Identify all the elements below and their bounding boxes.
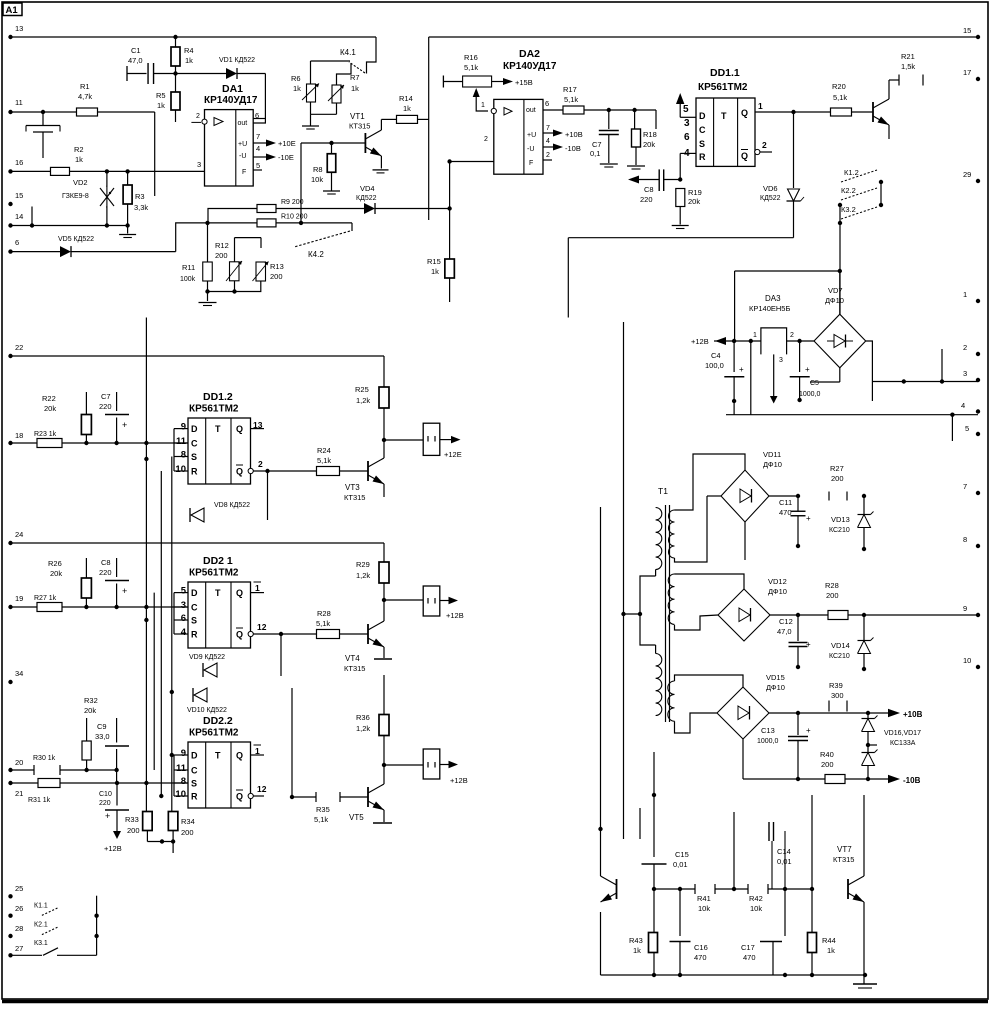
svg-text:КТ315: КТ315 (344, 664, 365, 673)
svg-text:DA3: DA3 (765, 294, 781, 303)
svg-text:15: 15 (963, 26, 971, 35)
svg-text:1,2k: 1,2k (356, 724, 370, 733)
svg-text:VD12: VD12 (768, 577, 787, 586)
svg-text:470: 470 (779, 508, 792, 517)
svg-text:6: 6 (181, 613, 186, 624)
svg-text:Q: Q (236, 630, 243, 640)
svg-text:19: 19 (15, 594, 23, 603)
svg-text:VT3: VT3 (345, 483, 360, 492)
svg-text:C13: C13 (761, 726, 775, 735)
svg-text:C1: C1 (131, 46, 141, 55)
svg-text:R: R (699, 152, 706, 162)
svg-text:R16: R16 (464, 53, 478, 62)
svg-text:11: 11 (176, 763, 187, 774)
svg-text:220: 220 (99, 800, 111, 807)
svg-text:S: S (191, 452, 197, 462)
svg-text:220: 220 (99, 568, 112, 577)
svg-text:16: 16 (15, 158, 23, 167)
svg-text:+: + (805, 365, 810, 374)
svg-text:К1.2: К1.2 (844, 168, 859, 177)
svg-text:КТ315: КТ315 (833, 855, 854, 864)
svg-text:T: T (215, 424, 221, 434)
svg-text:ДФ10: ДФ10 (763, 460, 782, 469)
svg-text:2: 2 (963, 343, 967, 352)
svg-text:Q: Q (236, 792, 243, 802)
svg-text:200: 200 (270, 272, 283, 281)
svg-text:220: 220 (640, 195, 653, 204)
svg-text:Q: Q (236, 424, 243, 434)
svg-text:ГЗКЕ9-8: ГЗКЕ9-8 (62, 193, 89, 200)
svg-text:R4: R4 (184, 46, 194, 55)
svg-text:1: 1 (963, 290, 967, 299)
svg-text:К2.1: К2.1 (34, 922, 48, 929)
svg-text:Q: Q (236, 751, 243, 761)
svg-text:C9: C9 (97, 722, 107, 731)
svg-text:2: 2 (258, 459, 263, 469)
svg-text:К3.2: К3.2 (841, 205, 856, 214)
svg-text:VT5: VT5 (349, 813, 364, 822)
svg-text:5,1k: 5,1k (564, 95, 578, 104)
svg-text:+10В: +10В (903, 710, 923, 719)
svg-text:КР561ТМ2: КР561ТМ2 (189, 728, 239, 739)
svg-text:1,5k: 1,5k (901, 62, 915, 71)
svg-text:out: out (526, 107, 536, 114)
svg-text:25: 25 (15, 884, 23, 893)
svg-text:29: 29 (963, 170, 971, 179)
svg-text:R26: R26 (48, 559, 62, 568)
svg-text:+10В: +10В (565, 130, 583, 139)
svg-text:9: 9 (181, 422, 186, 433)
svg-text:КД522: КД522 (356, 195, 377, 202)
svg-text:R35: R35 (316, 805, 330, 814)
svg-text:-10В: -10В (903, 776, 921, 785)
svg-text:R30 1k: R30 1k (33, 755, 56, 762)
svg-text:R12: R12 (215, 241, 229, 250)
svg-text:C8: C8 (101, 558, 111, 567)
svg-text:5: 5 (256, 161, 260, 170)
svg-text:1k: 1k (293, 84, 301, 93)
svg-text:3: 3 (963, 369, 967, 378)
svg-text:10k: 10k (750, 904, 762, 913)
svg-text:C7: C7 (592, 140, 602, 149)
svg-text:C8: C8 (644, 185, 654, 194)
svg-text:VT1: VT1 (350, 112, 365, 121)
svg-text:R17: R17 (563, 85, 577, 94)
svg-text:+U: +U (527, 132, 536, 139)
svg-text:7: 7 (963, 482, 967, 491)
svg-text:R39: R39 (829, 681, 843, 690)
svg-text:1: 1 (758, 101, 763, 111)
svg-text:DD1.2: DD1.2 (203, 391, 233, 403)
svg-text:КС133А: КС133А (890, 740, 916, 747)
svg-text:5: 5 (181, 586, 187, 597)
svg-text:+: + (806, 726, 811, 735)
svg-text:1k: 1k (633, 946, 641, 955)
svg-text:100,0: 100,0 (705, 361, 724, 370)
svg-text:R36: R36 (356, 713, 370, 722)
svg-text:1k: 1k (157, 101, 165, 110)
svg-text:R25: R25 (355, 385, 369, 394)
svg-text:КР140УД17: КР140УД17 (503, 61, 557, 72)
svg-text:КД522: КД522 (760, 195, 781, 202)
svg-text:R44: R44 (822, 936, 836, 945)
svg-text:5,1k: 5,1k (314, 815, 328, 824)
svg-text:DA1: DA1 (222, 83, 243, 95)
svg-text:1000,0: 1000,0 (757, 738, 779, 745)
svg-text:R10 200: R10 200 (281, 214, 308, 221)
svg-text:F: F (242, 169, 246, 176)
svg-text:12: 12 (257, 784, 267, 794)
svg-text:Q: Q (236, 588, 243, 598)
svg-text:К2.2: К2.2 (841, 186, 856, 195)
svg-text:21: 21 (15, 789, 23, 798)
svg-text:R: R (191, 792, 198, 802)
svg-text:A1: A1 (6, 5, 19, 16)
svg-text:R18: R18 (643, 130, 657, 139)
svg-text:DD1.1: DD1.1 (710, 67, 740, 79)
svg-text:200: 200 (826, 591, 839, 600)
svg-text:DD2 1: DD2 1 (203, 555, 233, 567)
svg-text:3: 3 (779, 357, 783, 364)
svg-text:DD2.2: DD2.2 (203, 715, 233, 727)
svg-text:VD6: VD6 (763, 184, 778, 193)
svg-text:Т1: Т1 (658, 486, 668, 496)
svg-text:7: 7 (256, 132, 260, 141)
svg-text:20k: 20k (643, 140, 655, 149)
svg-text:20k: 20k (84, 706, 96, 715)
svg-text:VD8 КД522: VD8 КД522 (214, 502, 250, 509)
svg-text:1,2k: 1,2k (356, 396, 370, 405)
svg-text:R41: R41 (697, 894, 711, 903)
svg-text:+12В: +12В (446, 611, 464, 620)
svg-text:9: 9 (181, 748, 186, 759)
svg-text:0,01: 0,01 (673, 860, 688, 869)
svg-text:11: 11 (15, 98, 23, 107)
svg-text:3: 3 (197, 160, 201, 169)
svg-text:R27: R27 (830, 464, 844, 473)
svg-text:R40: R40 (820, 750, 834, 759)
svg-text:8: 8 (963, 535, 967, 544)
svg-text:VD9 КД522: VD9 КД522 (189, 654, 225, 661)
svg-text:DA2: DA2 (519, 48, 540, 60)
svg-text:1k: 1k (431, 267, 439, 276)
svg-text:КР140ЕН5Б: КР140ЕН5Б (749, 304, 790, 313)
svg-text:C17: C17 (741, 943, 755, 952)
svg-text:R20: R20 (832, 82, 846, 91)
svg-text:1k: 1k (185, 56, 193, 65)
svg-text:T: T (721, 111, 727, 121)
svg-text:D: D (191, 588, 198, 598)
svg-text:D: D (191, 751, 198, 761)
svg-text:15: 15 (15, 191, 23, 200)
svg-text:100k: 100k (180, 276, 196, 283)
svg-text:R33: R33 (125, 815, 139, 824)
svg-text:22: 22 (15, 343, 23, 352)
svg-text:R1: R1 (80, 82, 90, 91)
svg-text:VD16,VD17: VD16,VD17 (884, 730, 921, 737)
svg-text:3: 3 (181, 600, 186, 611)
svg-text:R9 200: R9 200 (281, 199, 304, 206)
svg-text:10: 10 (175, 464, 186, 475)
svg-text:R43: R43 (629, 936, 643, 945)
svg-text:18: 18 (15, 431, 23, 440)
svg-text:R23 1k: R23 1k (34, 431, 57, 438)
svg-text:VD15: VD15 (766, 673, 785, 682)
svg-text:C4: C4 (711, 351, 721, 360)
svg-text:4: 4 (546, 138, 550, 145)
svg-text:7: 7 (546, 125, 550, 132)
svg-text:R24: R24 (317, 446, 331, 455)
svg-text:10k: 10k (311, 175, 323, 184)
svg-text:10: 10 (175, 789, 186, 800)
svg-text:+12Е: +12Е (444, 450, 462, 459)
svg-text:ДФ10: ДФ10 (825, 296, 844, 305)
svg-text:1k: 1k (827, 946, 835, 955)
svg-text:8: 8 (181, 450, 186, 461)
svg-text:47,0: 47,0 (128, 56, 143, 65)
svg-text:КР561ТМ2: КР561ТМ2 (698, 82, 748, 93)
svg-text:5,1k: 5,1k (833, 93, 847, 102)
svg-text:10: 10 (963, 656, 971, 665)
svg-text:24: 24 (15, 530, 23, 539)
svg-text:2: 2 (546, 152, 550, 159)
svg-text:+: + (122, 586, 127, 596)
svg-text:3: 3 (684, 118, 690, 129)
svg-text:6: 6 (684, 132, 690, 143)
svg-text:VD14: VD14 (831, 641, 850, 650)
svg-text:КР140УД17: КР140УД17 (204, 95, 258, 106)
svg-text:R31 1k: R31 1k (28, 797, 51, 804)
svg-text:F: F (529, 160, 533, 167)
svg-text:C: C (699, 125, 706, 135)
svg-text:+U: +U (238, 141, 247, 148)
svg-text:C15: C15 (675, 850, 689, 859)
svg-text:R22: R22 (42, 394, 56, 403)
svg-text:2: 2 (196, 113, 200, 120)
svg-text:R34: R34 (181, 817, 195, 826)
svg-text:D: D (191, 424, 198, 434)
svg-text:11: 11 (176, 436, 187, 447)
svg-text:VT4: VT4 (345, 654, 360, 663)
svg-text:14: 14 (15, 212, 23, 221)
svg-text:200: 200 (821, 760, 834, 769)
svg-text:200: 200 (831, 474, 844, 483)
svg-text:4: 4 (256, 144, 260, 153)
svg-text:out: out (238, 120, 248, 127)
svg-text:220: 220 (99, 402, 112, 411)
svg-text:КС210: КС210 (829, 653, 850, 660)
svg-text:20k: 20k (50, 569, 62, 578)
svg-text:R21: R21 (901, 52, 915, 61)
svg-text:C10: C10 (99, 791, 112, 798)
svg-text:-U: -U (527, 146, 534, 153)
svg-text:+12В: +12В (691, 337, 709, 346)
svg-text:S: S (699, 139, 705, 149)
svg-text:КТ315: КТ315 (344, 493, 365, 502)
svg-text:5,1k: 5,1k (464, 63, 478, 72)
svg-text:T: T (215, 588, 221, 598)
svg-text:R42: R42 (749, 894, 763, 903)
svg-text:27: 27 (15, 944, 23, 953)
svg-text:+: + (105, 811, 110, 821)
svg-text:VT7: VT7 (837, 845, 852, 854)
svg-text:R15: R15 (427, 257, 441, 266)
svg-text:R32: R32 (84, 696, 98, 705)
svg-text:C: C (191, 603, 198, 613)
svg-text:20: 20 (15, 758, 23, 767)
svg-text:К3.1: К3.1 (34, 940, 48, 947)
svg-text:R29: R29 (356, 560, 370, 569)
svg-text:Q: Q (741, 108, 748, 118)
svg-text:R5: R5 (156, 91, 166, 100)
svg-text:200: 200 (215, 251, 228, 260)
svg-text:C16: C16 (694, 943, 708, 952)
svg-text:+12В: +12В (450, 776, 468, 785)
svg-text:200: 200 (127, 826, 140, 835)
svg-text:5,1k: 5,1k (316, 619, 330, 628)
svg-text:VD4: VD4 (360, 184, 375, 193)
svg-text:1k: 1k (75, 155, 83, 164)
svg-text:R2: R2 (74, 145, 84, 154)
svg-text:1,2k: 1,2k (356, 571, 370, 580)
svg-text:К4.1: К4.1 (340, 48, 356, 57)
svg-text:C: C (191, 766, 198, 776)
svg-text:-10Е: -10Е (278, 153, 294, 162)
svg-text:2: 2 (790, 332, 794, 339)
svg-text:-U: -U (239, 153, 246, 160)
svg-text:R6: R6 (291, 74, 301, 83)
svg-text:C: C (191, 439, 198, 449)
svg-text:+12В: +12В (104, 844, 122, 853)
svg-text:VD1 КД522: VD1 КД522 (219, 57, 255, 64)
svg-text:R: R (191, 467, 198, 477)
svg-text:S: S (191, 779, 197, 789)
svg-text:5: 5 (965, 424, 969, 433)
svg-text:4: 4 (961, 401, 965, 410)
svg-text:S: S (191, 616, 197, 626)
svg-text:C14: C14 (777, 847, 791, 856)
svg-text:R: R (191, 630, 198, 640)
svg-text:33,0: 33,0 (95, 732, 110, 741)
svg-text:+: + (806, 640, 811, 649)
svg-text:26: 26 (15, 904, 23, 913)
svg-text:9: 9 (963, 604, 967, 613)
svg-text:13: 13 (15, 24, 23, 33)
svg-text:VD10 КД522: VD10 КД522 (187, 707, 227, 714)
svg-text:R14: R14 (399, 94, 413, 103)
svg-text:20k: 20k (688, 197, 700, 206)
svg-text:470: 470 (743, 953, 756, 962)
svg-text:6: 6 (545, 99, 549, 108)
svg-text:C5: C5 (810, 380, 819, 387)
svg-text:R13: R13 (270, 262, 284, 271)
svg-text:C11: C11 (779, 498, 792, 507)
svg-text:VD11: VD11 (763, 450, 781, 459)
svg-text:470: 470 (694, 953, 707, 962)
svg-text:0,1: 0,1 (590, 149, 600, 158)
svg-text:8: 8 (181, 776, 186, 787)
svg-text:КР561ТМ2: КР561ТМ2 (189, 568, 239, 579)
svg-text:+: + (739, 365, 744, 374)
svg-text:T: T (215, 751, 221, 761)
svg-text:200: 200 (181, 828, 194, 837)
svg-text:+: + (122, 420, 127, 430)
svg-text:R28: R28 (825, 581, 839, 590)
svg-text:КР561ТМ2: КР561ТМ2 (189, 404, 239, 415)
svg-text:4,7k: 4,7k (78, 92, 92, 101)
svg-text:20k: 20k (44, 404, 56, 413)
svg-text:ДФ10: ДФ10 (766, 683, 785, 692)
svg-text:3,3k: 3,3k (134, 203, 148, 212)
svg-text:-10В: -10В (565, 144, 581, 153)
svg-text:D: D (699, 111, 706, 121)
svg-text:0,01: 0,01 (777, 857, 792, 866)
svg-text:R3: R3 (135, 192, 145, 201)
svg-text:C7: C7 (101, 392, 111, 401)
svg-text:+15В: +15В (515, 78, 533, 87)
svg-text:ДФ10: ДФ10 (768, 587, 787, 596)
svg-text:К1.1: К1.1 (34, 903, 48, 910)
svg-text:+10Е: +10Е (278, 139, 296, 148)
svg-text:4: 4 (181, 627, 187, 638)
svg-text:R11: R11 (182, 263, 195, 272)
svg-text:R8: R8 (313, 165, 323, 174)
svg-text:1: 1 (481, 102, 485, 109)
svg-text:VD5 КД522: VD5 КД522 (58, 236, 94, 243)
svg-text:6: 6 (15, 238, 19, 247)
svg-text:R28: R28 (317, 609, 331, 618)
svg-text:C12: C12 (779, 617, 793, 626)
svg-text:Q: Q (236, 467, 243, 477)
svg-text:10k: 10k (698, 904, 710, 913)
svg-text:+: + (806, 514, 811, 523)
svg-text:К4.2: К4.2 (308, 250, 324, 259)
svg-text:1: 1 (753, 332, 757, 339)
svg-text:2: 2 (484, 136, 488, 143)
svg-text:2: 2 (762, 140, 767, 150)
svg-text:VD13: VD13 (831, 515, 850, 524)
svg-text:R19: R19 (688, 188, 702, 197)
svg-text:1000,0: 1000,0 (799, 391, 821, 398)
svg-text:1: 1 (255, 583, 260, 593)
svg-text:Q: Q (741, 151, 748, 161)
svg-text:1k: 1k (403, 104, 411, 113)
svg-text:КТ315: КТ315 (349, 122, 370, 131)
svg-text:34: 34 (15, 669, 23, 678)
svg-text:КС210: КС210 (829, 527, 850, 534)
svg-text:47,0: 47,0 (777, 627, 792, 636)
svg-text:17: 17 (963, 68, 971, 77)
svg-text:5: 5 (683, 104, 689, 115)
svg-text:12: 12 (257, 622, 267, 632)
svg-text:5,1k: 5,1k (317, 456, 331, 465)
svg-text:1k: 1k (351, 84, 359, 93)
svg-text:28: 28 (15, 924, 23, 933)
svg-text:R27 1k: R27 1k (34, 595, 57, 602)
svg-text:VD2: VD2 (73, 178, 88, 187)
svg-text:300: 300 (831, 691, 844, 700)
svg-text:VD7: VD7 (828, 286, 843, 295)
